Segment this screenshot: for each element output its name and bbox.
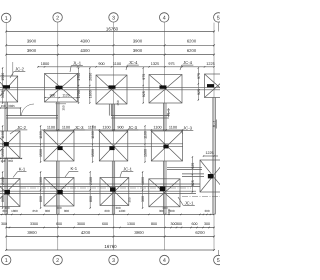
svg-text:1500: 1500 (144, 149, 148, 157)
svg-text:4: 4 (163, 258, 166, 264)
svg-text:975: 975 (168, 62, 174, 66)
svg-text:1700: 1700 (77, 90, 81, 98)
svg-text:3025: 3025 (8, 104, 15, 108)
svg-text:1100: 1100 (153, 125, 161, 129)
svg-text:1500: 1500 (39, 149, 43, 157)
svg-text:16760: 16760 (106, 26, 119, 31)
svg-text:1100: 1100 (1, 131, 5, 139)
svg-text:800: 800 (1, 196, 5, 202)
svg-text:JC-1: JC-1 (185, 200, 195, 205)
svg-text:3900: 3900 (133, 48, 143, 53)
svg-text:6200: 6200 (187, 48, 197, 53)
svg-text:1120: 1120 (62, 93, 69, 97)
svg-text:1100: 1100 (62, 125, 70, 129)
svg-text:1325: 1325 (151, 62, 159, 66)
svg-text:3900: 3900 (27, 230, 37, 235)
svg-text:925: 925 (197, 89, 201, 95)
svg-text:1100: 1100 (144, 131, 148, 139)
svg-text:300: 300 (115, 206, 120, 210)
svg-text:4300: 4300 (80, 39, 90, 44)
svg-text:925: 925 (191, 180, 195, 186)
svg-text:1: 1 (5, 16, 8, 22)
svg-text:300: 300 (141, 196, 145, 202)
svg-text:3025: 3025 (1, 90, 5, 98)
svg-text:JC-2: JC-2 (15, 67, 25, 72)
svg-text:1: 1 (5, 258, 8, 264)
svg-text:950: 950 (8, 159, 13, 163)
svg-text:900: 900 (117, 125, 123, 129)
svg-text:1100: 1100 (39, 131, 43, 139)
svg-text:350: 350 (62, 105, 66, 110)
svg-text:6200: 6200 (187, 39, 197, 44)
svg-text:300: 300 (1, 222, 7, 226)
svg-text:900: 900 (98, 62, 104, 66)
svg-text:350: 350 (128, 197, 132, 202)
svg-text:3300: 3300 (30, 222, 38, 226)
svg-text:1800: 1800 (141, 177, 145, 185)
svg-text:K-1: K-1 (19, 167, 26, 172)
svg-text:2050: 2050 (88, 73, 92, 81)
svg-text:800: 800 (151, 222, 157, 226)
svg-text:1100: 1100 (102, 125, 110, 129)
svg-text:350: 350 (116, 100, 120, 105)
svg-text:JL-1: JL-1 (213, 120, 217, 127)
svg-text:JC-1: JC-1 (123, 167, 133, 172)
svg-text:1100: 1100 (88, 125, 96, 129)
svg-text:2: 2 (56, 15, 59, 21)
svg-text:JC-4: JC-4 (183, 60, 193, 65)
svg-text:975: 975 (197, 73, 201, 79)
svg-text:6200: 6200 (195, 230, 205, 235)
svg-text:600: 600 (56, 222, 62, 226)
svg-text:JC-3: JC-3 (128, 125, 138, 130)
svg-text:2100: 2100 (1, 177, 5, 185)
svg-text:1500: 1500 (1, 149, 5, 157)
svg-text:JC-3: JC-3 (75, 125, 85, 130)
svg-text:800: 800 (64, 209, 69, 213)
svg-text:3900: 3900 (27, 39, 37, 44)
svg-text:300: 300 (204, 209, 209, 213)
svg-text:1300: 1300 (127, 222, 135, 226)
svg-text:1750: 1750 (77, 73, 81, 81)
svg-text:3900: 3900 (27, 48, 37, 53)
svg-text:900: 900 (50, 93, 56, 97)
svg-text:800: 800 (45, 209, 50, 213)
svg-text:1225: 1225 (206, 62, 214, 66)
svg-text:150: 150 (0, 159, 5, 163)
svg-text:2100: 2100 (89, 177, 93, 185)
svg-text:925: 925 (191, 163, 195, 169)
svg-text:925: 925 (142, 91, 146, 97)
svg-text:1500: 1500 (1, 73, 5, 81)
svg-text:JC-2: JC-2 (17, 125, 27, 130)
svg-text:600: 600 (104, 209, 109, 213)
svg-text:1100: 1100 (169, 125, 177, 129)
svg-text:975: 975 (142, 74, 146, 80)
svg-text:2: 2 (56, 258, 59, 264)
svg-text:3900: 3900 (134, 230, 144, 235)
svg-text:1300: 1300 (39, 177, 43, 185)
svg-text:JC-4: JC-4 (129, 60, 139, 65)
svg-text:3: 3 (112, 15, 115, 21)
svg-text:600: 600 (192, 222, 198, 226)
svg-text:1100: 1100 (91, 131, 95, 139)
svg-text:1800: 1800 (41, 62, 49, 66)
svg-text:5: 5 (217, 258, 220, 264)
svg-text:4300: 4300 (80, 48, 90, 53)
svg-text:3000: 3000 (77, 222, 85, 226)
svg-text:600: 600 (102, 222, 108, 226)
svg-text:300: 300 (204, 222, 210, 226)
svg-text:300: 300 (176, 222, 182, 226)
svg-text:1800: 1800 (88, 90, 92, 98)
svg-text:650: 650 (32, 209, 37, 213)
svg-text:5: 5 (217, 15, 220, 21)
svg-text:3900: 3900 (133, 39, 143, 44)
svg-text:1100: 1100 (47, 125, 55, 129)
svg-text:800: 800 (89, 196, 93, 202)
svg-text:4200: 4200 (81, 230, 91, 235)
svg-text:3: 3 (112, 258, 115, 264)
svg-text:4: 4 (163, 15, 166, 21)
svg-text:1800: 1800 (167, 208, 171, 215)
svg-text:JL-1: JL-1 (73, 61, 82, 66)
svg-text:1225: 1225 (206, 151, 214, 155)
svg-text:16760: 16760 (104, 244, 117, 249)
svg-text:1100: 1100 (113, 62, 121, 66)
svg-text:K-1: K-1 (71, 166, 78, 171)
svg-text:1800: 1800 (11, 209, 18, 213)
svg-text:1500: 1500 (91, 149, 95, 157)
svg-text:JC-3: JC-3 (183, 125, 193, 130)
svg-text:800: 800 (39, 196, 43, 202)
svg-text:150: 150 (1, 104, 6, 108)
